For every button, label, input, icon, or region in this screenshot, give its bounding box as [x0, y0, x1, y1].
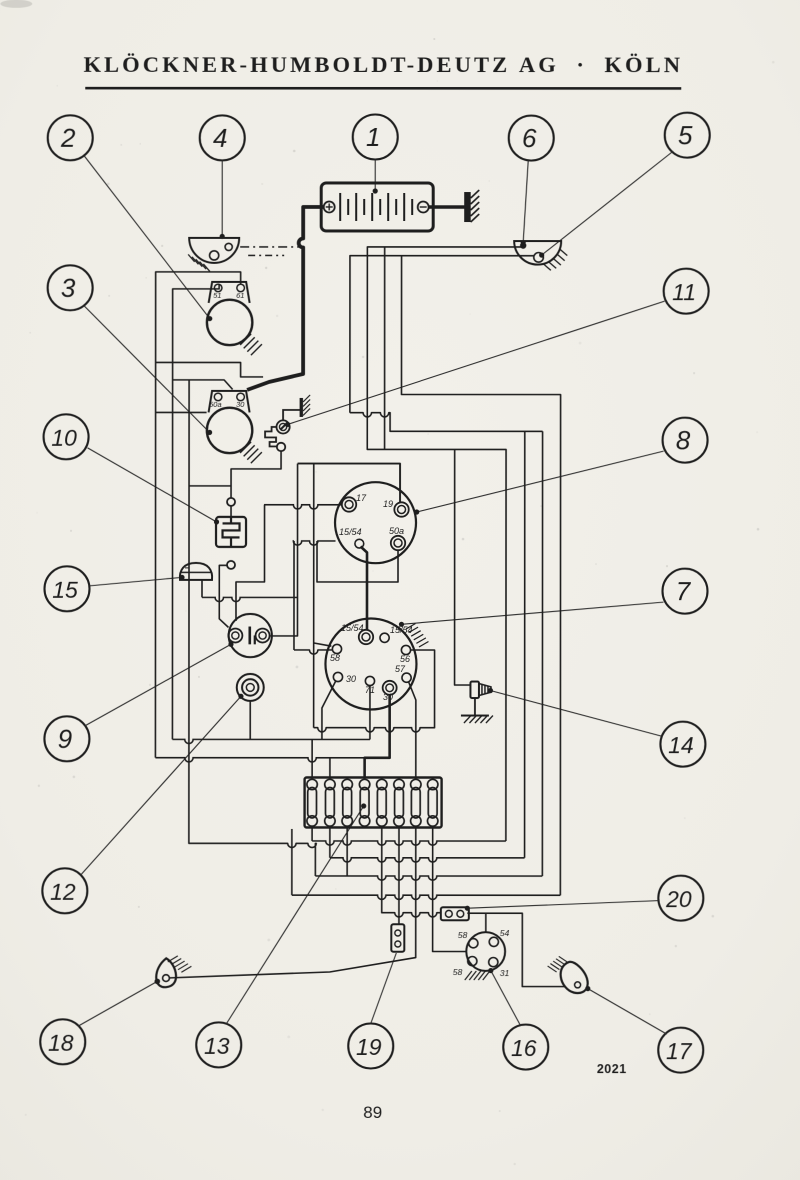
- regulator resistor box (component 10): [216, 517, 246, 547]
- leader line 12: [81, 694, 244, 875]
- wire link down: [293, 541, 295, 650]
- wire branch bus to regulator drop: [189, 485, 231, 487]
- wire outer right bus: [401, 256, 560, 895]
- callout circle 19: [348, 1023, 393, 1068]
- svg-text:17: 17: [666, 1038, 693, 1064]
- svg-text:30: 30: [236, 400, 245, 409]
- callout circle 6: [509, 116, 554, 161]
- svg-text:20: 20: [665, 886, 692, 912]
- leader line 3: [84, 306, 212, 435]
- leader line 18: [78, 981, 158, 1026]
- ignition starter switch (component 8): [335, 482, 416, 563]
- svg-text:9: 9: [58, 724, 72, 754]
- wire dynamo 51 to second bus: [172, 284, 219, 740]
- side lamp right (component 17): [561, 962, 588, 993]
- wire row to fuse box top 1: [311, 739, 313, 777]
- plug socket (component 9): [228, 614, 272, 657]
- svg-text:3: 3: [61, 273, 76, 303]
- trailer socket (component 16): [453, 928, 510, 978]
- ground hatching (dynamo): [240, 334, 262, 355]
- wire battery negative to ground: [428, 205, 465, 209]
- wire socket 12 down: [249, 701, 251, 739]
- wire breaker 11 to regulator: [231, 451, 281, 498]
- svg-text:31: 31: [500, 968, 510, 978]
- svg-text:10: 10: [51, 425, 77, 451]
- svg-text:17: 17: [356, 493, 367, 503]
- wire battery area drop: [384, 247, 386, 449]
- wire horn button row: [202, 597, 298, 601]
- wire fuse 6 to connector 19: [398, 826, 400, 924]
- leader line 5: [539, 151, 673, 258]
- callout circle 14: [660, 722, 705, 767]
- ground (component 14): [461, 716, 493, 724]
- wire fuse 1 drop: [311, 826, 313, 841]
- svg-text:56: 56: [400, 654, 410, 664]
- leader line 15: [90, 575, 185, 586]
- ground hatching (horn 5/6): [560, 249, 568, 256]
- svg-text:KLÖCKNER-HUMBOLDT-DEUTZ AG ·: KLÖCKNER-HUMBOLDT-DEUTZ AG · KÖLN: [83, 52, 683, 77]
- svg-text:15/54: 15/54: [339, 527, 362, 537]
- callout circle 5: [665, 113, 710, 158]
- leader line 11: [285, 301, 665, 427]
- leader line 16: [488, 968, 521, 1026]
- wire row to fuse box top 2: [329, 758, 331, 778]
- callout circle 2: [48, 115, 93, 160]
- wire fuse 5 to connector 20: [382, 826, 441, 917]
- leader line 13: [226, 803, 366, 1024]
- wire dynamo 61 to left bus: [155, 272, 240, 758]
- wire horn button down: [201, 581, 203, 598]
- svg-text:19: 19: [383, 499, 393, 509]
- svg-text:19: 19: [356, 1034, 382, 1060]
- wire row to fuse corner: [292, 895, 561, 899]
- wire fuse 3 drop: [346, 826, 348, 876]
- leader line 4: [220, 160, 225, 239]
- callout circle 18: [40, 1019, 85, 1064]
- wire jog row to right bus B: [350, 413, 543, 432]
- ground (battery): [464, 190, 479, 222]
- callout circle 7: [662, 569, 707, 614]
- wire row to fuse 2: [330, 858, 525, 862]
- breaker contact / terminal screw (component 11): [265, 410, 300, 451]
- wire regulator to link: [294, 650, 332, 654]
- ground hatching (starter): [240, 442, 262, 463]
- node below regulator: [227, 561, 235, 569]
- svg-text:15: 15: [52, 577, 78, 603]
- horn (component 4): [189, 238, 239, 263]
- callout circle 11: [664, 269, 709, 314]
- svg-text:7: 7: [676, 576, 692, 606]
- wire long row upper: [172, 739, 370, 743]
- svg-text:2021: 2021: [597, 1062, 627, 1076]
- lighting switch (component 7): [325, 618, 416, 709]
- wire regulator down: [219, 565, 228, 627]
- wire terminal 56 loop: [314, 650, 435, 732]
- leader line 7: [399, 602, 664, 627]
- svg-text:18: 18: [48, 1030, 74, 1056]
- svg-text:30: 30: [346, 674, 356, 684]
- leader line 1: [373, 159, 378, 193]
- svg-text:54: 54: [500, 928, 510, 938]
- svg-text:1: 1: [366, 122, 380, 152]
- wire to ignition terminal 17: [264, 505, 342, 509]
- wire fuse 7 to lamp 18: [170, 826, 416, 978]
- wire third bus down to fuse area: [189, 380, 317, 876]
- node above regulator: [227, 498, 235, 506]
- flat connector (component 20): [441, 907, 469, 920]
- wire long row lower: [155, 758, 389, 762]
- wire terminal 30 main (thick): [365, 695, 390, 778]
- horn button (component 15): [180, 563, 212, 580]
- svg-text:58: 58: [458, 930, 468, 940]
- leader line 2: [84, 156, 212, 321]
- svg-text:15/54: 15/54: [341, 623, 364, 633]
- leader line 17: [585, 986, 667, 1034]
- svg-text:51: 51: [213, 291, 221, 300]
- svg-text:16: 16: [511, 1035, 537, 1061]
- wire 58 bus drop: [313, 464, 315, 728]
- leader line 10: [88, 448, 220, 525]
- callout circle 13: [196, 1022, 241, 1067]
- wire bus to starter body: [156, 411, 206, 413]
- ground hatching (component 16): [465, 971, 490, 980]
- leader line 6: [521, 161, 529, 246]
- side lamp left (component 18): [154, 958, 176, 987]
- leader line 8: [414, 451, 663, 515]
- wire horn terminal 2 down: [350, 256, 534, 413]
- wire row to fuse 1: [312, 841, 506, 845]
- inline connector (component 19): [391, 924, 404, 952]
- wire right bus C: [524, 431, 526, 857]
- svg-text:12: 12: [50, 879, 76, 905]
- wire bus to lower row: [236, 505, 265, 621]
- svg-text:4: 4: [213, 123, 227, 153]
- svg-text:11: 11: [672, 279, 696, 305]
- fuse box (component 13): [305, 777, 442, 827]
- svg-text:2: 2: [60, 123, 76, 153]
- wire fuse 8 to socket 16: [433, 826, 467, 952]
- callout circle 4: [200, 115, 245, 160]
- callout circle 10: [44, 414, 89, 459]
- leader line 20: [465, 901, 659, 911]
- wire ignition 50a loop: [317, 541, 398, 582]
- leader line 9: [85, 642, 234, 726]
- callout circle 17: [658, 1028, 703, 1073]
- title KLOECKNER-HUMBOLDT-DEUTZ AG KOELN: [83, 52, 683, 90]
- wire node to regulator box: [230, 506, 232, 517]
- callout circle 20: [658, 876, 703, 921]
- cigar lighter / socket (component 12): [237, 674, 264, 701]
- wire bus to starter 50a: [173, 380, 233, 390]
- wire to ignition terminal 19: [298, 464, 401, 503]
- wire connector 20 to lamp 17: [467, 913, 566, 986]
- wire to socket 9 right: [270, 464, 297, 636]
- svg-text:8: 8: [676, 425, 691, 455]
- callout circle 8: [663, 418, 708, 463]
- svg-text:57: 57: [395, 664, 406, 674]
- wire horn terminal to right bus A: [367, 247, 521, 841]
- wire fuse 2 drop: [329, 826, 331, 858]
- wire row to fuse 3: [315, 876, 542, 880]
- wire ignition 15/54 to light switch (thick): [360, 546, 367, 630]
- wire terminal 57 to fuse box: [408, 682, 415, 778]
- ground (component 11): [300, 395, 311, 417]
- wire terminal 71 down: [369, 686, 371, 740]
- wire to ignition terminal 15/54: [293, 541, 335, 545]
- svg-text:50a: 50a: [389, 526, 404, 536]
- callout circle 15: [44, 566, 89, 611]
- dynamo / generator (component 2) with terminals 51 61: [207, 282, 252, 345]
- connector plug (component 14): [470, 682, 491, 699]
- ground hatching (horn 4): [188, 254, 210, 271]
- horn (components 5 and 6): [514, 241, 561, 265]
- svg-text:14: 14: [668, 732, 694, 758]
- starter motor (component 3) with terminals 50a 30: [207, 391, 252, 453]
- hatching (lamp 17): [548, 956, 568, 972]
- svg-text:30: 30: [383, 692, 393, 702]
- wire fuse box corner drop: [291, 829, 293, 895]
- svg-text:58: 58: [330, 653, 340, 663]
- wire connector 20 to socket 16: [485, 913, 487, 932]
- callout circle 16: [503, 1025, 548, 1070]
- callout circle 9: [44, 716, 89, 761]
- svg-text:61: 61: [236, 291, 244, 300]
- svg-text:89: 89: [363, 1103, 382, 1122]
- dash-dot line from horn 4: [240, 246, 300, 248]
- callout circle 3: [48, 265, 93, 310]
- wire plug 14 to ground: [474, 698, 476, 716]
- hatching (lamp 18): [168, 956, 192, 972]
- svg-text:50a: 50a: [209, 400, 222, 409]
- svg-text:58: 58: [453, 967, 463, 977]
- wire right bus D: [541, 431, 543, 876]
- wire feed to plug 14: [455, 449, 471, 685]
- svg-text:6: 6: [522, 123, 537, 153]
- wire battery positive cable (thick) to starter terminal 30: [247, 207, 324, 390]
- leader line 14: [488, 688, 662, 736]
- svg-text:13: 13: [204, 1033, 230, 1059]
- wire terminal 30 left down: [322, 681, 336, 740]
- callout circle 1: [353, 114, 398, 159]
- wire to terminal 58: [314, 643, 332, 646]
- wire bus to starter cable joint: [156, 362, 263, 376]
- hatching on light switch rim: [406, 624, 429, 648]
- battery B1 (component 1): [321, 183, 433, 231]
- callout circle 12: [42, 868, 87, 913]
- svg-text:5: 5: [678, 120, 693, 150]
- leader line 19: [371, 953, 397, 1024]
